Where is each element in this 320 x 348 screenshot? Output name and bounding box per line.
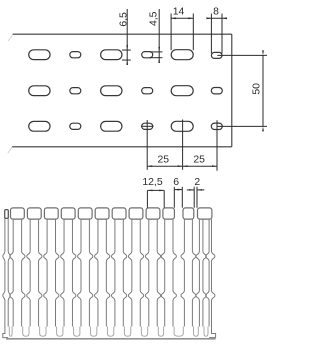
finger cap 10 <box>163 208 175 219</box>
centermark row3 hole x147 <box>141 125 154 127</box>
small hole row3 x75.3 <box>70 123 81 129</box>
break mark top-left <box>8 34 13 41</box>
perforated mounting strip (top view) <box>8 7 267 171</box>
finger shaft 11 <box>181 219 184 326</box>
finger cap 5 <box>78 208 92 219</box>
small slot row1 col6 (8 dim) <box>211 52 222 58</box>
svg-text:4,5: 4,5 <box>149 11 160 26</box>
finger shaft 7 <box>112 219 115 326</box>
finger cap 2 <box>27 208 41 219</box>
finger cap 6 <box>95 208 109 219</box>
left cut wall <box>5 210 9 219</box>
svg-text:25: 25 <box>193 155 205 166</box>
finger shaft 6 <box>95 219 98 326</box>
small hole row2 col6 <box>211 88 222 94</box>
finger cap 9 <box>146 208 160 219</box>
small hole row1 x147.2 <box>142 52 153 58</box>
slot hole row3 x182 <box>171 121 193 131</box>
dim 25 25 hole pitch <box>146 120 148 170</box>
slot hole row2 x182 <box>171 86 193 96</box>
small hole row1 x75.3 <box>70 52 81 58</box>
finger cap 8 <box>129 208 143 219</box>
strip top edge <box>13 33 232 35</box>
slot hole row2 x111.3 <box>101 86 122 96</box>
svg-text:12,5: 12,5 <box>142 177 162 188</box>
svg-text:6,5: 6,5 <box>118 12 129 27</box>
end post foot <box>209 327 216 338</box>
slot hole row1 x111.3 <box>101 50 122 60</box>
svg-text:14: 14 <box>173 7 185 18</box>
svg-text:50: 50 <box>252 83 263 95</box>
finger cap 7 <box>112 208 126 219</box>
slotted duct side wall (comb of fingers) <box>3 177 216 339</box>
small hole row2 x147.2 <box>142 88 153 94</box>
small hole row2 x75.3 <box>70 88 81 94</box>
slot hole row3 x39.4 <box>29 121 50 131</box>
slot hole row1 x39.4 <box>29 50 50 60</box>
small hole row3 col6 <box>211 123 222 129</box>
finger shaft 9 <box>145 219 148 326</box>
finger cap 4 <box>61 208 75 219</box>
finger shaft 5 <box>78 219 81 326</box>
duct base line <box>6 338 216 340</box>
break mark bottom-left <box>8 146 13 153</box>
strip right cut edge <box>231 34 233 147</box>
finger cap 3 <box>44 208 58 219</box>
strip bottom edge <box>12 146 232 148</box>
finger shaft 1 <box>10 219 13 326</box>
finger shaft 8 <box>129 219 132 326</box>
finger shaft 10 <box>161 219 164 326</box>
finger shaft 3 <box>44 219 47 326</box>
svg-text:8: 8 <box>213 7 219 18</box>
slot hole row3 x111.3 <box>101 121 122 131</box>
finger cap 11 <box>183 208 194 219</box>
slot rounded bottoms <box>9 327 12 337</box>
finger cap 1 <box>11 208 25 219</box>
finger shaft 12 <box>196 219 199 326</box>
svg-text:2: 2 <box>194 177 200 188</box>
svg-text:25: 25 <box>158 155 170 166</box>
slot hole row1 x182 <box>171 50 193 60</box>
svg-text:6: 6 <box>173 177 179 188</box>
finger shaft 4 <box>61 219 64 326</box>
finger shaft 13 <box>206 219 209 326</box>
slot hole row2 x39.4 <box>29 86 50 96</box>
small hole row3 x147.2 <box>142 123 153 129</box>
end post cap <box>198 208 212 219</box>
finger shaft 2 <box>27 219 30 326</box>
